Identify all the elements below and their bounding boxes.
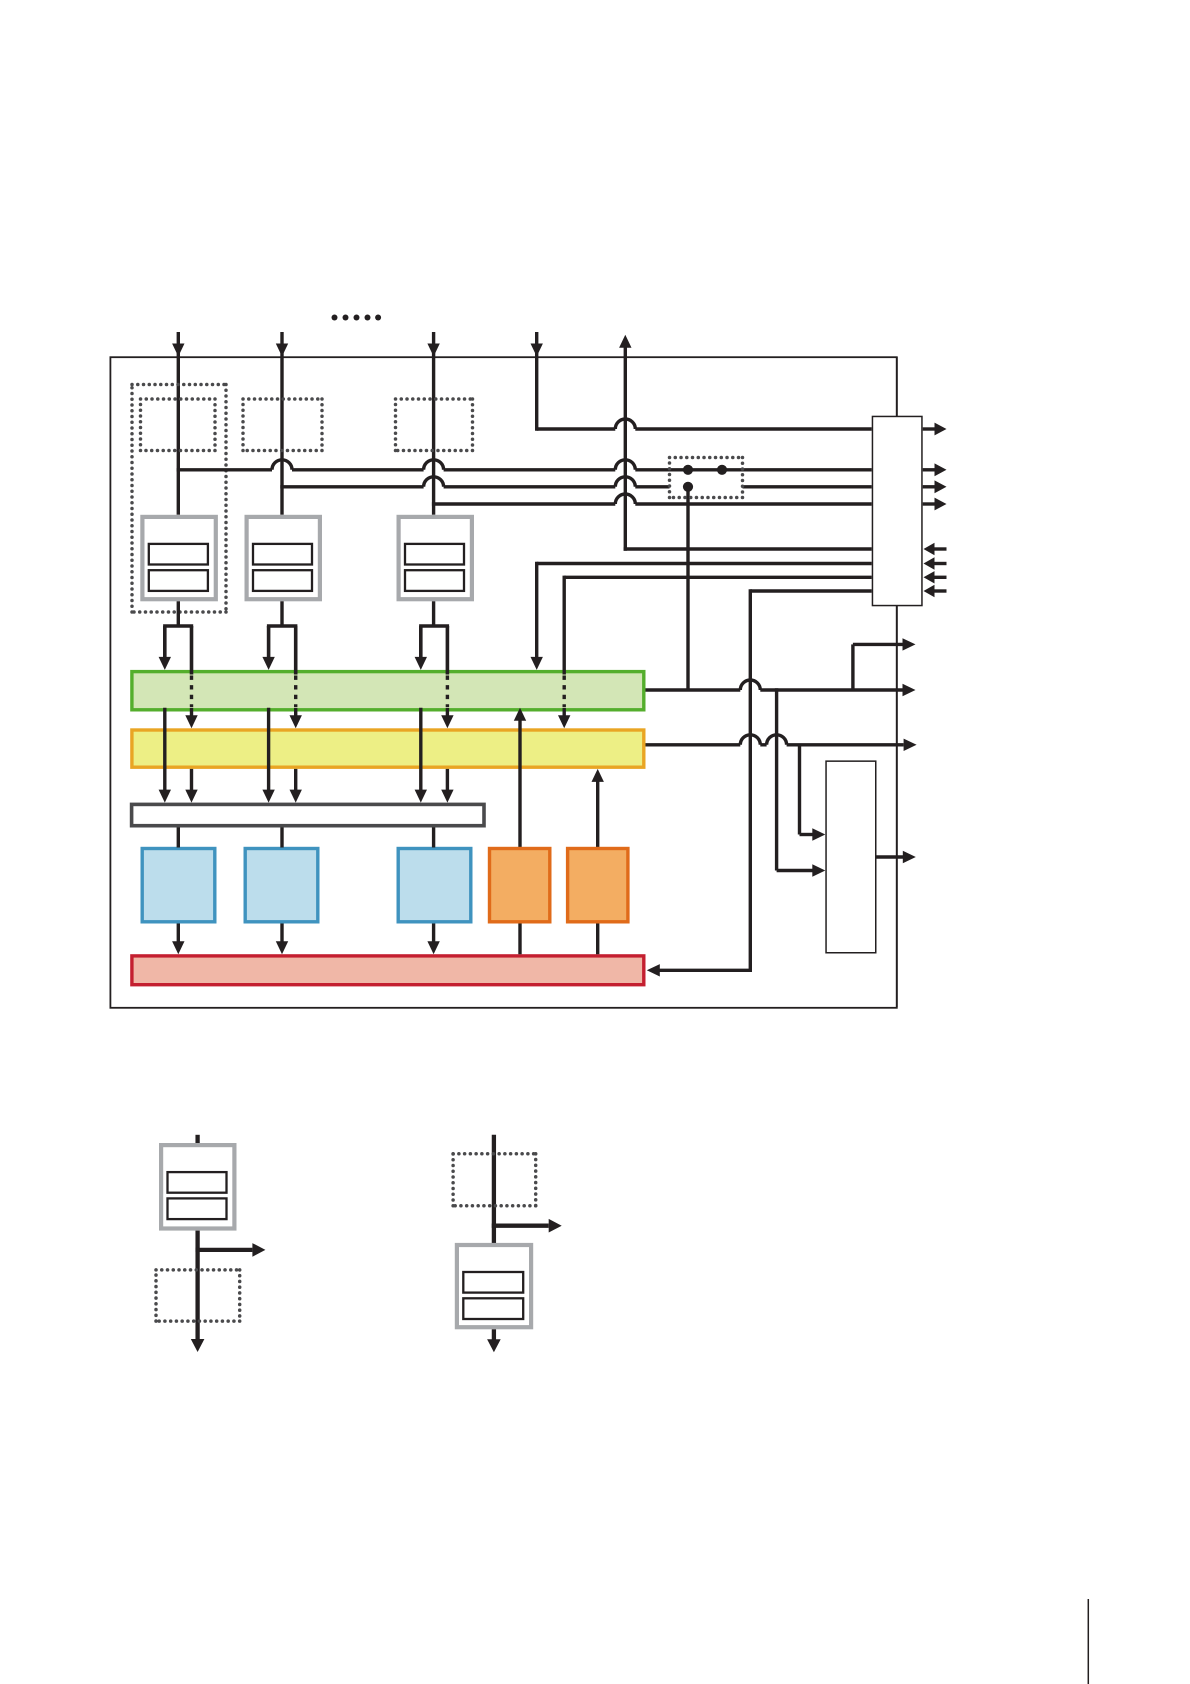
junction dot C bbox=[683, 482, 693, 492]
white register bar bbox=[132, 804, 484, 825]
chip outer frame bbox=[110, 357, 896, 1008]
blue block 3 bbox=[398, 849, 471, 922]
pin in arrow 3 bbox=[934, 576, 947, 579]
register stub 2 bbox=[280, 828, 283, 848]
gray register box 3 bbox=[399, 517, 472, 599]
legend left wire down bbox=[195, 1231, 199, 1341]
legend right wire top bbox=[492, 1135, 496, 1244]
legend left branch arrow bbox=[195, 1248, 252, 1252]
register stub 1 bbox=[177, 828, 180, 848]
legend right dotted box bbox=[453, 1152, 536, 1156]
chip right edge upper bbox=[896, 357, 898, 416]
branch down from yellow wire bbox=[798, 745, 801, 835]
branch up arrow bbox=[851, 644, 854, 690]
junction dot A bbox=[683, 465, 693, 475]
blue block arrow 1 bbox=[177, 924, 180, 943]
branch down to mini box bbox=[775, 688, 778, 870]
mini block bbox=[826, 761, 876, 953]
junction dot B bbox=[717, 465, 727, 475]
tap wire down from dot C bbox=[686, 487, 689, 690]
green bus bar bbox=[132, 672, 644, 710]
register stub 3 bbox=[432, 828, 435, 848]
fork channel column 3 bbox=[432, 601, 435, 626]
input wire 3 bbox=[432, 332, 435, 515]
footer rule bbox=[1087, 1599, 1089, 1684]
input wire 2 bbox=[280, 332, 283, 515]
red bus bar bbox=[132, 956, 644, 985]
gray register box 2 bbox=[247, 517, 320, 599]
input wire 4 bbox=[535, 332, 538, 431]
input wire 1 bbox=[177, 332, 180, 515]
blue block arrow 3 bbox=[432, 924, 435, 943]
gray register box 1 bbox=[142, 517, 215, 599]
pin in arrow 4 bbox=[934, 589, 947, 592]
orange block 2 bbox=[568, 849, 628, 922]
blue block 1 bbox=[142, 849, 215, 922]
pin in arrow 2 bbox=[934, 562, 947, 565]
fork channel column 1 bbox=[177, 601, 180, 626]
orange riser 2 bbox=[596, 781, 599, 955]
fork channel column 2 bbox=[280, 601, 283, 626]
outer dotted box column 1 bbox=[132, 383, 226, 387]
orange block 1 bbox=[490, 849, 550, 922]
legend left gray box bbox=[161, 1145, 234, 1228]
pin in arrow 1 bbox=[934, 547, 947, 550]
legend right branch arrow bbox=[492, 1224, 549, 1228]
legend right wire down bbox=[492, 1329, 496, 1341]
pass wire C bbox=[564, 576, 872, 579]
legend right gray box bbox=[457, 1245, 531, 1327]
blue block 2 bbox=[245, 849, 318, 922]
pin out arrow 3 bbox=[923, 485, 935, 488]
legend left wire top bbox=[195, 1135, 199, 1144]
dotted box column 2 bbox=[243, 397, 322, 401]
dotted junction box bbox=[670, 456, 743, 460]
yellow bus bar bbox=[132, 730, 644, 767]
pin out arrow 4 bbox=[923, 502, 935, 505]
pass wire B bbox=[537, 562, 872, 565]
dotted box column 3 bbox=[396, 397, 473, 401]
bus line 2 right bbox=[743, 485, 872, 488]
green bus wire bbox=[646, 688, 741, 691]
legend left dotted box bbox=[156, 1268, 240, 1272]
pin out arrow 2 bbox=[923, 468, 935, 471]
pass wire D to red bus bbox=[750, 589, 871, 592]
bus line 2 left bbox=[280, 485, 423, 488]
mini block out arrow bbox=[877, 855, 904, 858]
chip right edge lower bbox=[896, 606, 898, 1007]
dotted box column 1 bbox=[141, 397, 216, 401]
pin out arrow 1 bbox=[923, 427, 935, 430]
bus line 3 bbox=[432, 502, 615, 505]
pin block bbox=[872, 416, 922, 605]
yellow bus wire bbox=[646, 743, 741, 746]
blue block arrow 2 bbox=[280, 924, 283, 943]
orange riser 1 bbox=[518, 720, 521, 955]
output wire up bbox=[624, 348, 627, 551]
ellipsis dots bbox=[332, 315, 338, 321]
bus line 1 bbox=[177, 468, 272, 471]
